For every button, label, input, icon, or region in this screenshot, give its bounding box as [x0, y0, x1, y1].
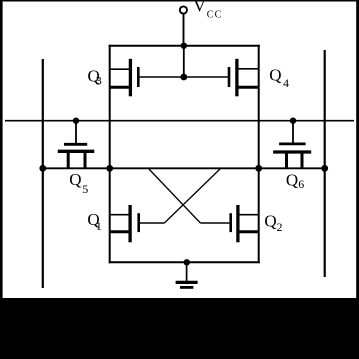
svg-text:Q: Q — [286, 171, 298, 190]
svg-text:Q: Q — [69, 170, 81, 189]
svg-text:V: V — [193, 0, 206, 16]
svg-text:1: 1 — [96, 219, 102, 233]
svg-text:5: 5 — [82, 182, 88, 196]
svg-text:Q: Q — [264, 212, 276, 231]
svg-text:6: 6 — [298, 177, 304, 191]
svg-text:CC: CC — [207, 10, 223, 21]
svg-text:3: 3 — [96, 74, 102, 88]
svg-text:Q: Q — [269, 65, 281, 84]
svg-text:4: 4 — [283, 76, 289, 90]
svg-text:2: 2 — [277, 220, 283, 234]
